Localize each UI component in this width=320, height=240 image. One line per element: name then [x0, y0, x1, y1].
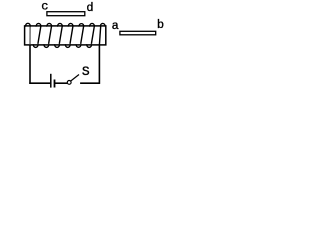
inductor L1 coil top loops	[26, 23, 105, 26]
svg-text:a: a	[112, 19, 119, 33]
wire right vertical	[98, 45, 100, 84]
inductor L1 coil bottom loops	[33, 44, 91, 47]
switch S pivot circle	[67, 81, 71, 85]
conductor rod ab	[120, 31, 156, 35]
wire bottom left	[29, 82, 50, 84]
wire switch to right	[80, 82, 100, 84]
wire battery to switch	[55, 82, 68, 84]
switch S blade (open)	[71, 75, 79, 81]
wires	[29, 45, 100, 84]
svg-text:S: S	[82, 64, 90, 79]
svg-text:b: b	[157, 18, 164, 32]
conductor rod cd	[47, 12, 85, 16]
battery BT1 short plate (-)	[54, 80, 56, 88]
svg-text:c: c	[41, 0, 48, 14]
inductor L1 solenoid core	[25, 26, 106, 45]
inductor L1 coil front turns	[30, 26, 101, 45]
svg-text:d: d	[86, 1, 93, 15]
battery BT1 long plate (+)	[50, 74, 52, 88]
wire left vertical	[29, 45, 31, 84]
